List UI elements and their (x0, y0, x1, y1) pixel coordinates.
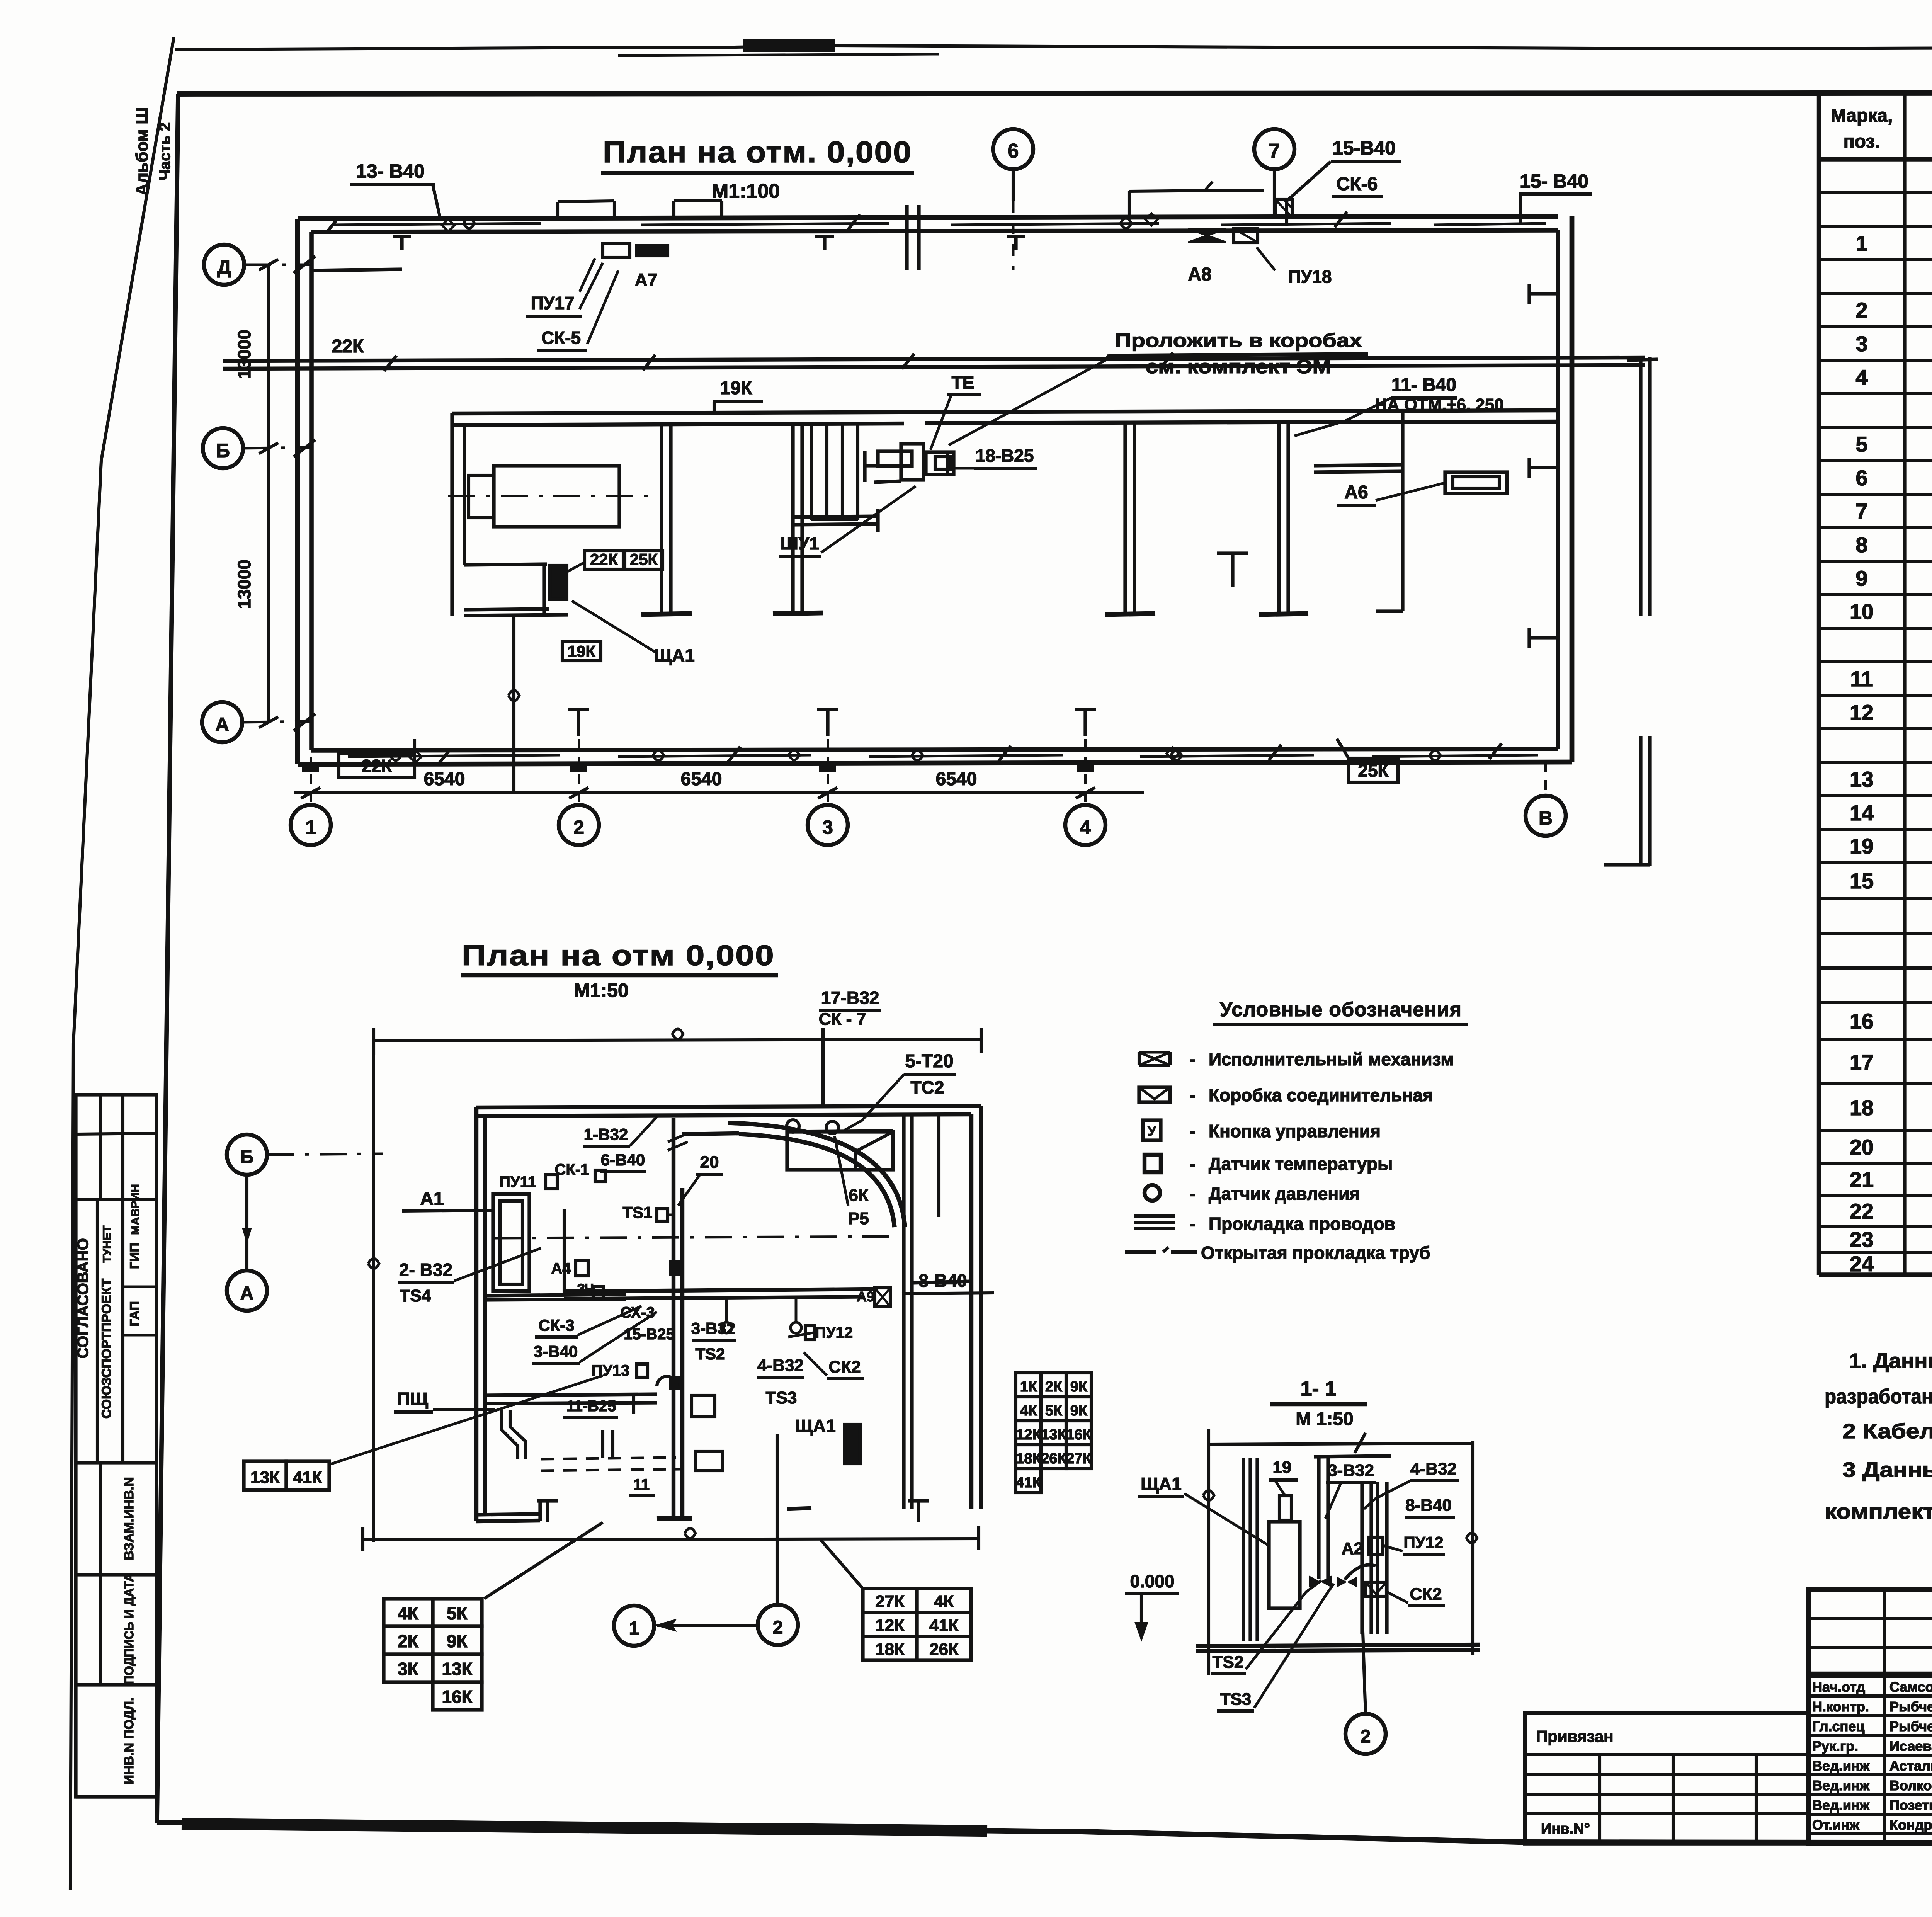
small plan top dimension line (374, 1039, 981, 1041)
svg-text:11- В40: 11- В40 (1391, 375, 1456, 395)
big plan bottom wall window lines (348, 755, 560, 757)
big plan device A7 cluster (603, 243, 630, 257)
svg-text:1. Данный чертеж выполнен на о: 1. Данный чертеж выполнен на основании ч… (1849, 1349, 1932, 1373)
svg-text:2: 2 (1855, 298, 1867, 322)
legend symbol temperature sensor (1145, 1155, 1161, 1172)
svg-text:6540: 6540 (424, 769, 465, 789)
title block outer (1808, 1590, 1932, 1843)
svg-text:ЩА1: ЩА1 (654, 645, 695, 665)
big plan staircase lines (810, 425, 813, 520)
frame bottom line (157, 1822, 1932, 1843)
svg-text:18К: 18К (1016, 1451, 1041, 1467)
paper edge dark blob (743, 39, 835, 52)
svg-text:2К: 2К (1045, 1379, 1063, 1395)
big plan right wall ticks (1529, 292, 1558, 295)
big plan interior wall top-left (311, 269, 402, 270)
svg-text:А1: А1 (420, 1189, 444, 1209)
big plan axis circle 7 (1254, 129, 1294, 169)
svg-text:13К: 13К (442, 1659, 473, 1679)
svg-text:8-В40: 8-В40 (1405, 1496, 1452, 1515)
svg-text:11: 11 (633, 1476, 650, 1493)
svg-text:6-В40: 6-В40 (601, 1151, 645, 1169)
small plan outer walls (476, 1106, 981, 1107)
parts table header row (1819, 157, 1932, 162)
small plan K table left box 13K 41K (244, 1461, 286, 1490)
svg-text:2- В32: 2- В32 (399, 1260, 452, 1280)
svg-text:41К: 41К (929, 1616, 959, 1635)
small plan bottom-left room (485, 1394, 657, 1395)
svg-text:ПУ12: ПУ12 (815, 1324, 853, 1341)
svg-text:-: - (1189, 1049, 1195, 1069)
small plan axis circles 1 2 (614, 1606, 654, 1646)
legend symbol control button (1143, 1120, 1161, 1140)
svg-text:ШУ1: ШУ1 (781, 533, 819, 553)
svg-text:ПОДПИСЬ И ДАТА: ПОДПИСЬ И ДАТА (122, 1573, 136, 1684)
svg-text:Коробка соединительная: Коробка соединительная (1209, 1085, 1433, 1105)
svg-text:20: 20 (1850, 1135, 1874, 1159)
svg-text:1-В32: 1-В32 (584, 1125, 628, 1143)
svg-text:5К: 5К (1045, 1403, 1063, 1419)
svg-text:25К: 25К (1358, 760, 1389, 781)
svg-text:Кнопка управления: Кнопка управления (1209, 1121, 1381, 1141)
svg-text:13- В40: 13- В40 (356, 160, 425, 182)
svg-text:Привязан: Привязан (1536, 1727, 1613, 1745)
svg-text:3-В40: 3-В40 (534, 1342, 578, 1361)
svg-text:СК-5: СК-5 (541, 328, 581, 348)
svg-text:М 1:50: М 1:50 (1296, 1409, 1353, 1429)
small plan bottom-right K table (863, 1589, 917, 1613)
small plan device A4 (576, 1260, 588, 1276)
svg-text:см. комплект ЭМ: см. комплект ЭМ (1146, 356, 1331, 378)
frame top line (177, 93, 1932, 94)
svg-text:19К: 19К (720, 378, 752, 398)
big plan top wall window lines (332, 223, 541, 225)
svg-text:14: 14 (1850, 801, 1874, 825)
paper top edge second line (618, 54, 939, 56)
svg-text:22К: 22К (590, 550, 618, 568)
title block signature rows (1808, 1675, 1932, 1678)
svg-text:4К: 4К (398, 1603, 419, 1623)
svg-text:13000: 13000 (234, 330, 254, 379)
left strip stamp table (76, 1095, 156, 1797)
svg-text:16: 16 (1850, 1009, 1874, 1033)
svg-text:Позеткин: Позеткин (1889, 1797, 1932, 1813)
legend symbol executive mechanism (1139, 1052, 1170, 1065)
big plan axis circle B (1544, 762, 1547, 795)
small plan sensor circles top (787, 1120, 799, 1132)
big plan box 25K bottom (1349, 758, 1398, 782)
svg-text:ТУНЕТ: ТУНЕТ (101, 1226, 114, 1263)
svg-text:4: 4 (1855, 365, 1867, 390)
title block top small rows (1808, 1617, 1932, 1620)
svg-text:6: 6 (1855, 466, 1867, 490)
big plan expansion joint verticals (905, 205, 908, 270)
svg-text:ТS1: ТS1 (622, 1203, 652, 1221)
svg-text:А4: А4 (551, 1260, 571, 1277)
svg-text:12К: 12К (875, 1616, 905, 1635)
small plan small blocks on duct (669, 1260, 681, 1276)
svg-text:-: - (1189, 1154, 1195, 1174)
svg-text:Б: Б (240, 1147, 254, 1167)
svg-text:Рыбченко: Рыбченко (1889, 1718, 1932, 1734)
svg-text:Инв.N°: Инв.N° (1541, 1821, 1590, 1837)
svg-text:ЩА1: ЩА1 (795, 1416, 836, 1436)
svg-text:ТЕ: ТЕ (952, 373, 975, 393)
svg-text:Самсонов: Самсонов (1889, 1679, 1932, 1695)
big plan canopy segments left (558, 201, 614, 202)
svg-text:6К: 6К (849, 1186, 868, 1205)
svg-text:9К: 9К (447, 1631, 468, 1651)
svg-text:Н.контр.: Н.контр. (1812, 1699, 1869, 1715)
svg-text:СК-6: СК-6 (1337, 174, 1378, 194)
svg-text:5: 5 (1855, 432, 1867, 456)
big plan axis circle 6 (993, 129, 1033, 169)
svg-text:Р5: Р5 (848, 1209, 869, 1228)
big plan bottom dimension line (294, 791, 1144, 794)
svg-text:4К: 4К (934, 1592, 954, 1611)
big plan wall slashes (384, 356, 396, 371)
small plan bottom walls (476, 1521, 540, 1521)
small plan device box top right (787, 1132, 893, 1170)
big plan corridor wall (223, 357, 1645, 361)
svg-text:17-В32: 17-В32 (821, 988, 879, 1008)
svg-text:ЩА1: ЩА1 (1141, 1474, 1182, 1494)
svg-text:Волкова: Волкова (1889, 1778, 1932, 1793)
small plan duct curve (739, 1134, 895, 1227)
svg-text:План на отм. 0,000: План на отм. 0,000 (603, 135, 912, 169)
svg-text:41К: 41К (1016, 1475, 1041, 1491)
svg-text:2: 2 (573, 816, 584, 838)
svg-text:1К: 1К (1020, 1379, 1037, 1395)
svg-text:комплекта ОМ.: комплекта ОМ. (1825, 1500, 1932, 1523)
big plan room bottom-left (464, 564, 547, 565)
svg-text:Рук.гр.: Рук.гр. (1812, 1738, 1858, 1754)
svg-text:2К: 2К (398, 1631, 419, 1651)
svg-text:5К: 5К (447, 1603, 468, 1623)
svg-text:10: 10 (1850, 599, 1874, 624)
svg-text:М1:100: М1:100 (712, 180, 780, 202)
svg-text:ИНВ.N ПОДЛ.: ИНВ.N ПОДЛ. (122, 1698, 136, 1784)
svg-text:6540: 6540 (936, 769, 977, 789)
legend symbol open pipe run (1125, 1250, 1156, 1254)
svg-text:4-В32: 4-В32 (757, 1356, 804, 1375)
big plan exterior walls (298, 216, 1558, 219)
big plan canopy right (1129, 190, 1264, 191)
small plan left dim extension (372, 1041, 375, 1542)
small plan K table middle (1016, 1373, 1041, 1397)
section envelope CK2 (1366, 1582, 1386, 1596)
svg-text:Гл.спец: Гл.спец (1812, 1718, 1864, 1734)
svg-text:ТS2: ТS2 (695, 1345, 725, 1363)
big plan T symbols bottom (577, 709, 580, 736)
section duct above panel (1279, 1496, 1291, 1520)
svg-text:3: 3 (1855, 332, 1867, 356)
svg-text:Вед.инж: Вед.инж (1812, 1797, 1870, 1813)
svg-text:Прокладка проводов: Прокладка проводов (1209, 1214, 1395, 1234)
svg-text:ТС2: ТС2 (911, 1077, 944, 1097)
svg-text:18-В25: 18-В25 (976, 446, 1034, 466)
svg-text:11-В25: 11-В25 (566, 1398, 616, 1415)
svg-text:А7: А7 (635, 270, 658, 290)
svg-text:ПУ11: ПУ11 (499, 1174, 536, 1191)
big plan wall break marks (390, 750, 401, 760)
svg-text:9К: 9К (1070, 1379, 1088, 1395)
svg-text:6540: 6540 (681, 769, 722, 789)
svg-text:3: 3 (822, 816, 833, 838)
section floor line (1196, 1645, 1480, 1646)
svg-text:Кондратева: Кондратева (1889, 1817, 1932, 1833)
svg-text:12К: 12К (1016, 1427, 1041, 1443)
svg-text:разработанных институтом Союз: разработанных институтом Союзспортпроект (1825, 1385, 1932, 1408)
big plan device A8 bowtie (1188, 229, 1226, 242)
svg-text:От.инж: От.инж (1812, 1817, 1859, 1833)
svg-text:Астальцева: Астальцева (1889, 1758, 1932, 1774)
section column hatched (1242, 1458, 1245, 1641)
big plan wall tick marks top (400, 236, 403, 250)
small plan equipment near duct bottom (692, 1395, 715, 1417)
svg-text:22К: 22К (361, 756, 392, 776)
big plan wall crossing diamonds (409, 750, 422, 763)
svg-text:2: 2 (773, 1618, 783, 1638)
svg-text:СК-1: СК-1 (555, 1161, 589, 1178)
big plan cable drop from panel (512, 616, 515, 791)
big plan right side corridor walls (1627, 359, 1658, 360)
big plan left wall axis slashes (294, 256, 315, 273)
big plan boxes 22K 25K (585, 551, 623, 569)
svg-text:2: 2 (1361, 1726, 1371, 1747)
svg-text:В: В (1539, 807, 1553, 829)
svg-text:А2: А2 (1342, 1539, 1363, 1558)
svg-text:Д: Д (217, 256, 231, 278)
svg-text:0.000: 0.000 (1130, 1571, 1174, 1591)
svg-text:Условные обозначения: Условные обозначения (1220, 998, 1462, 1021)
small plan axis circle A (227, 1271, 267, 1311)
svg-text:7: 7 (1855, 499, 1867, 523)
svg-text:1: 1 (629, 1618, 639, 1639)
svg-text:25К: 25К (630, 550, 658, 568)
big plan inner rooms block (452, 410, 1558, 413)
svg-text:4-В32: 4-В32 (1410, 1459, 1457, 1478)
svg-text:27К: 27К (875, 1592, 905, 1611)
svg-text:Открытая прокладка труб: Открытая прокладка труб (1201, 1243, 1430, 1263)
svg-text:Нач.отд: Нач.отд (1812, 1679, 1865, 1695)
svg-text:Вед.инж: Вед.инж (1812, 1778, 1870, 1793)
svg-text:1: 1 (1855, 231, 1867, 255)
svg-text:5-Т20: 5-Т20 (905, 1051, 953, 1072)
section circle 2 with leader (1362, 1608, 1366, 1715)
svg-text:3-В32: 3-В32 (1328, 1461, 1374, 1480)
legend symbol wiring (1134, 1214, 1175, 1218)
svg-text:15-В40: 15-В40 (1332, 137, 1396, 159)
svg-text:М1:50: М1:50 (574, 980, 629, 1001)
svg-text:А: А (240, 1283, 254, 1304)
svg-text:Марка,: Марка, (1831, 105, 1893, 126)
svg-text:НА ОТМ.+6. 250: НА ОТМ.+6. 250 (1375, 395, 1504, 414)
svg-text:ТS4: ТS4 (400, 1286, 431, 1305)
svg-text:13000: 13000 (234, 560, 254, 609)
big plan vertical dimension line (267, 265, 270, 722)
small plan A1 cabinet (493, 1194, 529, 1291)
svg-text:4: 4 (1080, 816, 1091, 838)
svg-text:8-В40: 8-В40 (918, 1271, 967, 1291)
big plan right rooms (1123, 424, 1127, 614)
svg-text:Датчик температуры: Датчик температуры (1209, 1154, 1393, 1174)
svg-text:СК2: СК2 (1410, 1585, 1442, 1604)
svg-text:1: 1 (305, 816, 316, 838)
svg-text:4К: 4К (1020, 1403, 1037, 1419)
big plan axis circles bottom (291, 805, 331, 845)
section panel ЩА1 (1269, 1522, 1300, 1608)
svg-text:8: 8 (1855, 532, 1867, 557)
svg-text:СОГЛАСОВАНО: СОГЛАСОВАНО (75, 1238, 92, 1358)
big plan equipment TE cluster (878, 451, 912, 466)
svg-text:Исполнительный механизм: Исполнительный механизм (1209, 1049, 1454, 1069)
small plan dashdot hall axis (495, 1237, 900, 1238)
svg-text:-: - (1189, 1085, 1195, 1105)
svg-text:-: - (1189, 1184, 1195, 1204)
big plan inner vertical wall 2 with L (791, 425, 794, 614)
small plan bottom dimension line (363, 1539, 979, 1540)
svg-text:16К: 16К (442, 1687, 473, 1707)
svg-text:СК2: СК2 (828, 1357, 861, 1376)
svg-text:План на отм 0,000: План на отм 0,000 (462, 939, 775, 971)
svg-text:СОЮЗСПОРТПРОЕКТ: СОЮЗСПОРТПРОЕКТ (99, 1279, 114, 1419)
title block left attachment box (1525, 1713, 1808, 1843)
section dimension lines (1209, 1443, 1473, 1444)
svg-text:А6: А6 (1344, 482, 1368, 503)
small plan inner walls left (485, 1294, 626, 1296)
svg-text:13К: 13К (250, 1468, 280, 1487)
svg-text:ТS3: ТS3 (766, 1388, 797, 1407)
big plan box 22K bottom (339, 754, 415, 777)
legend symbol junction box (1139, 1087, 1170, 1102)
svg-text:Часть 2: Часть 2 (156, 122, 173, 180)
svg-text:ПУ12: ПУ12 (1403, 1533, 1443, 1551)
big plan box 19K (562, 641, 601, 661)
svg-text:Проложить в коробах: Проложить в коробах (1115, 330, 1362, 351)
svg-text:ТS2: ТS2 (1213, 1653, 1244, 1672)
svg-text:Б: Б (216, 440, 230, 461)
svg-text:9К: 9К (1070, 1403, 1088, 1419)
big plan equipment big rect (494, 466, 619, 527)
svg-text:СК-3: СК-3 (538, 1316, 574, 1334)
svg-text:Датчик давления: Датчик давления (1209, 1184, 1360, 1204)
svg-text:Альбом Ш: Альбом Ш (133, 107, 151, 196)
big plan A6 equipment (1445, 472, 1507, 493)
big plan panel ЩА1 symbol (550, 565, 567, 599)
svg-text:23: 23 (1850, 1227, 1874, 1252)
svg-text:1- 1: 1- 1 (1300, 1377, 1336, 1400)
svg-text:Вед.инж: Вед.инж (1812, 1758, 1870, 1774)
svg-text:17: 17 (1850, 1050, 1874, 1074)
svg-text:3 Данный чертеж рассматривать: 3 Данный чертеж рассматривать совместно … (1842, 1458, 1932, 1482)
big plan inner vertical wall 1 (660, 425, 663, 614)
svg-text:поз.: поз. (1844, 131, 1880, 152)
svg-text:18К: 18К (875, 1640, 905, 1659)
svg-text:13К: 13К (1041, 1427, 1066, 1443)
svg-text:27К: 27К (1066, 1451, 1092, 1467)
big plan left axis circles (204, 245, 244, 285)
small plan bottom-left K table (384, 1599, 433, 1626)
parts table outer and columns (1817, 94, 1821, 1275)
svg-text:МАВРИН: МАВРИН (129, 1184, 142, 1235)
svg-text:6: 6 (1008, 140, 1019, 162)
svg-text:ГАП: ГАП (128, 1301, 142, 1327)
svg-text:19К: 19К (568, 642, 596, 660)
small plan axis circle Б (227, 1135, 267, 1175)
svg-text:21: 21 (1850, 1167, 1874, 1192)
svg-text:ТS3: ТS3 (1220, 1690, 1252, 1709)
legend symbol pressure sensor (1145, 1185, 1160, 1201)
section valves (1309, 1575, 1332, 1588)
svg-text:19: 19 (1850, 834, 1874, 858)
svg-text:22: 22 (1850, 1199, 1874, 1223)
paper top edge (175, 46, 1932, 49)
small plan ЩА1 panel and label (845, 1424, 860, 1464)
svg-text:13: 13 (1850, 767, 1874, 791)
svg-text:У: У (1148, 1124, 1156, 1139)
small plan dashed cable runs (541, 1458, 676, 1459)
svg-text:2 Кабельный журнал см листы .3: 2 Кабельный журнал см листы .30...33 (1842, 1420, 1932, 1443)
svg-text:Рыбченко: Рыбченко (1889, 1699, 1932, 1715)
svg-text:ПУ18: ПУ18 (1288, 267, 1332, 287)
svg-text:12: 12 (1850, 700, 1874, 725)
big plan pilasters (302, 762, 319, 772)
svg-text:16К: 16К (1066, 1427, 1092, 1443)
svg-text:26К: 26К (929, 1640, 959, 1659)
svg-text:41К: 41К (293, 1468, 322, 1487)
big plan hatched box top (1275, 199, 1292, 217)
small plan label PU12 (805, 1326, 815, 1340)
title block sig-area verticals (1883, 1590, 1886, 1843)
svg-text:СК - 7: СК - 7 (819, 1010, 866, 1029)
svg-text:26К: 26К (1041, 1451, 1066, 1467)
svg-text:-: - (1189, 1214, 1195, 1234)
paper left edge (70, 37, 174, 1890)
svg-text:Исаева: Исаева (1889, 1738, 1932, 1754)
svg-text:ЗЧ: ЗЧ (577, 1281, 594, 1296)
svg-text:А8: А8 (1188, 264, 1211, 285)
frame bottom heavy left segment (182, 1824, 987, 1831)
svg-text:15- В40: 15- В40 (1520, 170, 1588, 192)
svg-text:22К: 22К (332, 336, 364, 357)
svg-text:ГИП: ГИП (128, 1243, 142, 1269)
svg-text:А: А (215, 714, 229, 735)
svg-text:20: 20 (700, 1153, 719, 1172)
svg-text:24: 24 (1850, 1252, 1874, 1276)
frame left line (157, 94, 178, 1823)
svg-text:ПЩ: ПЩ (397, 1389, 428, 1409)
svg-text:18: 18 (1850, 1095, 1874, 1120)
svg-text:ПУ17: ПУ17 (531, 293, 575, 313)
section pipes (1317, 1458, 1320, 1579)
svg-text:15: 15 (1850, 869, 1874, 893)
svg-text:9: 9 (1855, 566, 1867, 590)
small plan central duct (672, 1118, 675, 1518)
svg-text:ВЗАМ.ИНВ.N: ВЗАМ.ИНВ.N (122, 1477, 136, 1560)
big plan right room with wall (1401, 412, 1404, 611)
svg-text:7: 7 (1269, 140, 1280, 162)
small plan horizontal runs middle (564, 1289, 875, 1291)
svg-text:19: 19 (1273, 1458, 1292, 1477)
svg-text:-: - (1189, 1121, 1195, 1141)
svg-text:11: 11 (1850, 667, 1873, 691)
svg-text:3К: 3К (398, 1659, 419, 1679)
small plan device A9 (875, 1288, 890, 1306)
